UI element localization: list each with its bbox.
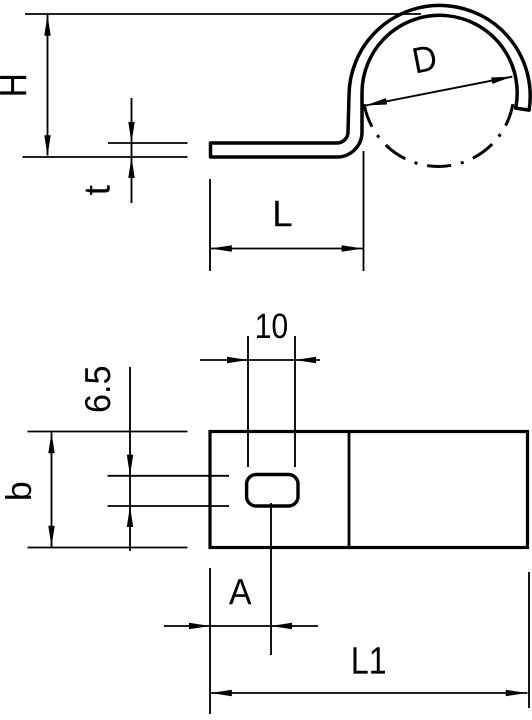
10 arrow right-pointing	[227, 357, 248, 363]
cable circle (dash-dot centerline, visible lower arc)	[364, 104, 513, 166]
t arrow up	[128, 157, 134, 178]
label 6.5	[85, 367, 111, 411]
label L	[275, 201, 291, 227]
b bottom extension line	[28, 547, 188, 549]
t arrow down	[128, 122, 134, 143]
L1 right extension line	[528, 572, 530, 708]
6.5 arrow down	[127, 455, 133, 476]
slot bottom extension line	[108, 505, 229, 507]
D arrow left	[366, 98, 387, 105]
dimension L line	[210, 248, 364, 250]
10-dim left extension line	[247, 336, 249, 467]
10 arrow left-pointing	[295, 357, 316, 363]
6.5 arrow up	[127, 506, 133, 527]
A arrow right-pointing	[189, 623, 210, 629]
label 10	[257, 313, 287, 338]
A arrow left-pointing	[271, 623, 292, 629]
L left extension line	[209, 179, 211, 271]
H arrow up	[44, 15, 50, 36]
L arrow left	[211, 245, 232, 251]
label t	[86, 185, 110, 194]
slot (oblong hole)	[247, 475, 298, 507]
dimension L1 line	[210, 692, 528, 694]
plate divider line	[348, 432, 351, 548]
label b	[5, 483, 31, 499]
clip strip outline (side view)	[211, 5, 531, 157]
bottom extension line (underside of strip, for H)	[23, 156, 188, 158]
A/L1 left extension line	[209, 568, 211, 714]
slot top extension line	[108, 475, 229, 477]
A slot-centre extension line	[270, 503, 272, 655]
10-dim right extension line	[294, 336, 296, 467]
L right extension line	[363, 151, 365, 271]
dimension b line	[51, 432, 53, 547]
label D	[413, 45, 437, 73]
b arrow down	[48, 526, 54, 547]
plate rectangle (top view)	[210, 432, 528, 548]
label L1	[354, 647, 386, 673]
b top extension line	[28, 431, 188, 433]
D arrow right	[491, 77, 512, 84]
dimension A line	[164, 625, 318, 627]
dimension 6.5 line	[129, 367, 131, 551]
H arrow down	[44, 135, 50, 156]
dimension 10 line	[200, 359, 320, 361]
t upper extension line	[108, 142, 188, 144]
L1 arrow right	[506, 690, 527, 696]
L arrow right	[342, 245, 363, 251]
dimension t line	[131, 98, 133, 203]
dimension H line	[47, 15, 49, 156]
label A	[229, 579, 252, 604]
dimension D line (diagonal diameter)	[366, 77, 512, 106]
L1 arrow left	[211, 690, 232, 696]
b arrow up	[48, 432, 54, 453]
label H	[0, 76, 26, 95]
top extension line (top of loop, for H)	[25, 13, 421, 15]
